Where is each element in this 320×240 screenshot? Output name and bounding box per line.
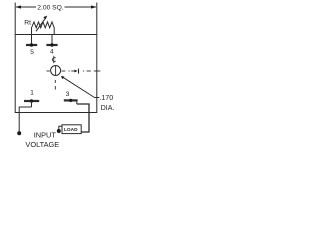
load box bbox=[62, 125, 81, 134]
dimension line 2.00 SQ. left segment with arrow bbox=[16, 5, 37, 8]
terminal 4 bar bbox=[46, 44, 57, 46]
terminal 5 dot bbox=[30, 43, 33, 46]
dimension extension line left bbox=[14, 3, 16, 35]
svg-text:Rt: Rt bbox=[24, 19, 31, 26]
leader arrow from .170 DIA. to dial bbox=[61, 76, 100, 98]
input junction dot left bbox=[17, 131, 21, 135]
resistor Rt zigzag bbox=[32, 22, 55, 35]
svg-text:4: 4 bbox=[50, 48, 54, 55]
svg-text:LOAD: LOAD bbox=[64, 127, 78, 133]
dimension line 2.00 SQ. right segment with arrow bbox=[65, 5, 97, 8]
svg-text:3: 3 bbox=[66, 91, 70, 98]
svg-text:INPUT: INPUT bbox=[34, 131, 57, 140]
dial slot line bbox=[55, 66, 57, 76]
terminal 5 bar bbox=[26, 44, 37, 46]
wire from terminal 3 down to load bbox=[77, 104, 89, 132]
svg-text:DIA.: DIA. bbox=[101, 104, 115, 112]
terminal 1 bar bbox=[24, 100, 39, 102]
horizontal centerline dash left of dial bbox=[47, 70, 50, 72]
terminal 1 stem bbox=[31, 101, 33, 107]
small arrow and tick on centerline bbox=[71, 69, 78, 74]
svg-text:2.00 SQ.: 2.00 SQ. bbox=[37, 4, 64, 11]
svg-text:.170: .170 bbox=[99, 94, 113, 102]
terminal 4 stem bbox=[51, 35, 53, 45]
wire from load to input junction right bbox=[59, 126, 62, 130]
terminal 3 stem bbox=[76, 100, 78, 104]
enclosure box outline bbox=[15, 35, 97, 113]
svg-text:VOLTAGE: VOLTAGE bbox=[25, 140, 59, 149]
dial knob circle bbox=[51, 66, 61, 76]
terminal 4 dot bbox=[50, 43, 53, 46]
wire from terminal 1 to input junction bbox=[19, 107, 31, 132]
terminal 1 dot bbox=[30, 99, 33, 102]
terminal 5 stem bbox=[31, 35, 33, 45]
horizontal centerline dash-dot right of dial bbox=[62, 70, 101, 72]
input junction dot right bbox=[57, 129, 61, 133]
terminal 3 bar bbox=[64, 99, 78, 101]
resistor Rt wiper arrow bbox=[36, 16, 47, 32]
terminal 3 dot bbox=[69, 99, 72, 102]
svg-text:5: 5 bbox=[30, 49, 34, 56]
vertical centerline dashes below dial bbox=[54, 80, 56, 83]
centerline symbol (C with vertical line) above dial bbox=[53, 56, 56, 63]
svg-text:1: 1 bbox=[30, 90, 34, 97]
dimension extension line right bbox=[96, 3, 98, 35]
